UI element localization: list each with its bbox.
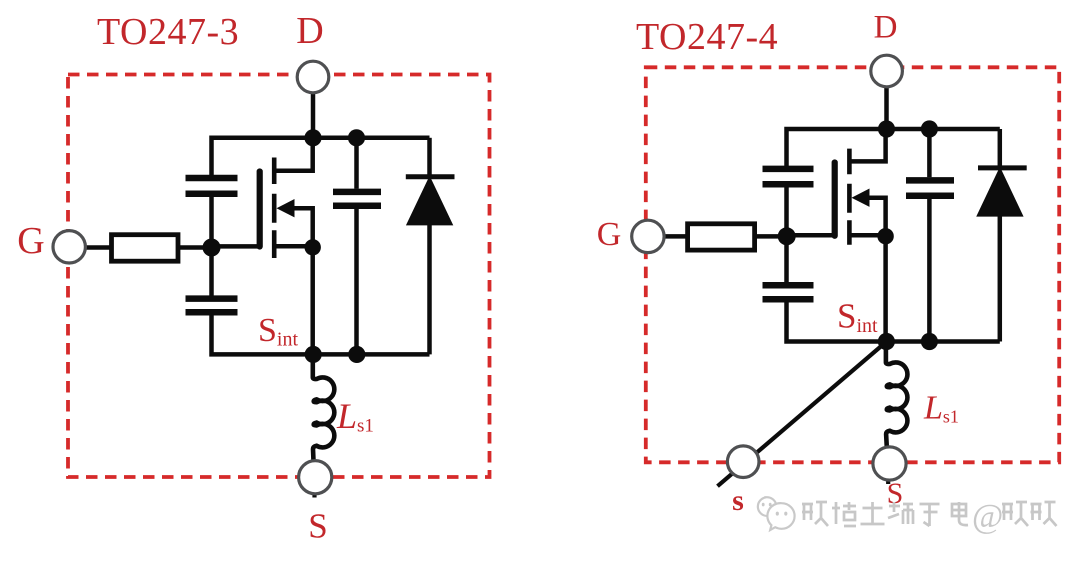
node: source internal junction	[877, 228, 893, 244]
svg-text:G: G	[17, 220, 44, 262]
package outline TO247-4 dashed box	[646, 67, 1059, 462]
wire: top rail	[787, 129, 1000, 166]
wire: D terminal to top rail	[884, 85, 889, 129]
wire: Cgd to gate node	[209, 196, 214, 248]
capacitor Cgs	[186, 299, 238, 313]
terminal D	[297, 61, 329, 93]
transistor Q1 drain tap	[275, 137, 313, 171]
wire: G terminal to resistor	[85, 245, 112, 250]
transistor Q2 channel segments	[847, 149, 852, 245]
wire: gate node down to Cgs	[209, 248, 214, 297]
resistor R1 gate resistor	[112, 235, 179, 262]
watermark wechat icon big bubble	[767, 503, 794, 530]
terminal D	[871, 55, 903, 87]
wire: D terminal to top rail	[311, 91, 316, 138]
terminal G	[632, 220, 664, 252]
wire: diode cathode to top rail	[427, 138, 432, 177]
svg-text:Sint: Sint	[258, 312, 298, 351]
terminal S	[299, 461, 332, 494]
watermark wechat icon small bubble	[758, 497, 777, 518]
inductor Ls1	[313, 354, 335, 461]
resistor R2 gate resistor	[688, 224, 755, 250]
package outline TO247-3 dashed box	[68, 75, 490, 478]
svg-text:D: D	[296, 10, 323, 52]
node: bottom rail junction at Cds	[348, 346, 365, 363]
node: top rail junction at Cds	[921, 120, 938, 137]
wire: body tap to source	[293, 208, 313, 247]
transistor Q1 source tap	[275, 244, 313, 249]
transistor Q1 MOSFET gate bar	[257, 172, 263, 247]
svg-text:TO247-3: TO247-3	[97, 11, 239, 53]
node: bottom rail junction at Cds	[921, 333, 938, 350]
wire: top rail	[212, 138, 430, 176]
wire: resistor to gate node	[755, 234, 787, 239]
transistor Q2 MOSFET gate bar	[832, 163, 838, 236]
svg-text:G: G	[597, 216, 622, 253]
wire: source down to rail	[883, 236, 888, 341]
svg-text:s: s	[732, 484, 744, 517]
wire: resistor to gate node	[178, 245, 212, 250]
svg-text:S: S	[308, 507, 327, 546]
node: top rail junction at D	[878, 120, 895, 137]
terminal S	[873, 447, 906, 480]
capacitor Cds	[906, 180, 954, 195]
capacitor Cds	[333, 192, 381, 206]
diode D2 body diode	[978, 168, 1027, 216]
transistor Q2 source tap	[850, 233, 886, 238]
wire stub below S terminal	[312, 477, 316, 498]
wire: gate lead	[212, 244, 260, 249]
wire: diode cathode to top rail	[998, 129, 1003, 168]
node: top rail junction at D	[304, 129, 321, 146]
wire: gate lead	[787, 233, 835, 238]
terminal G	[53, 231, 85, 263]
svg-text:Ls1: Ls1	[336, 396, 374, 437]
transistor Q1 channel segments	[272, 158, 277, 259]
wire: Cds branch verticals	[927, 129, 932, 342]
wire: source down to rail	[310, 247, 315, 354]
node: source internal junction	[305, 239, 321, 255]
wire: kelvin source diagonal	[718, 342, 887, 487]
wire: Cds branch verticals	[354, 138, 359, 355]
capacitor Cgd	[763, 169, 814, 184]
diode D1 body diode	[406, 177, 455, 225]
capacitor Cgs	[763, 285, 814, 299]
watermark glyphs	[802, 502, 828, 526]
svg-text:Ls1: Ls1	[923, 390, 959, 427]
svg-text:D: D	[874, 10, 898, 46]
node: top rail junction at Cds	[348, 129, 365, 146]
node: gate junction	[778, 227, 796, 245]
svg-text:TO247-4: TO247-4	[636, 16, 778, 58]
wire: bottom rail	[212, 315, 430, 355]
node: bottom rail junction Sint	[305, 346, 322, 363]
transistor Q2 drain tap	[850, 129, 886, 161]
terminal s kelvin	[727, 446, 759, 478]
wire: diode anode to bottom rail	[998, 215, 1003, 342]
node: gate junction	[203, 239, 221, 257]
wire stub below S terminal	[886, 463, 890, 484]
wire: diode anode to bottom rail	[427, 224, 432, 354]
svg-text:@: @	[972, 498, 1003, 535]
wire: G terminal to resistor	[664, 234, 688, 239]
wire: bottom rail	[787, 302, 1000, 342]
transistor Q2 body arrow	[852, 189, 870, 207]
wire: gate node down to Cgs	[784, 236, 789, 282]
capacitor Cgd	[186, 178, 238, 194]
svg-text:Sint: Sint	[837, 297, 878, 338]
node: bottom rail junction Sint	[878, 333, 895, 350]
transistor Q1 body arrow	[277, 199, 295, 217]
wire: body tap to source	[868, 198, 886, 237]
inductor Ls1 right	[886, 342, 908, 448]
wire: Cgd to gate node	[784, 186, 789, 236]
